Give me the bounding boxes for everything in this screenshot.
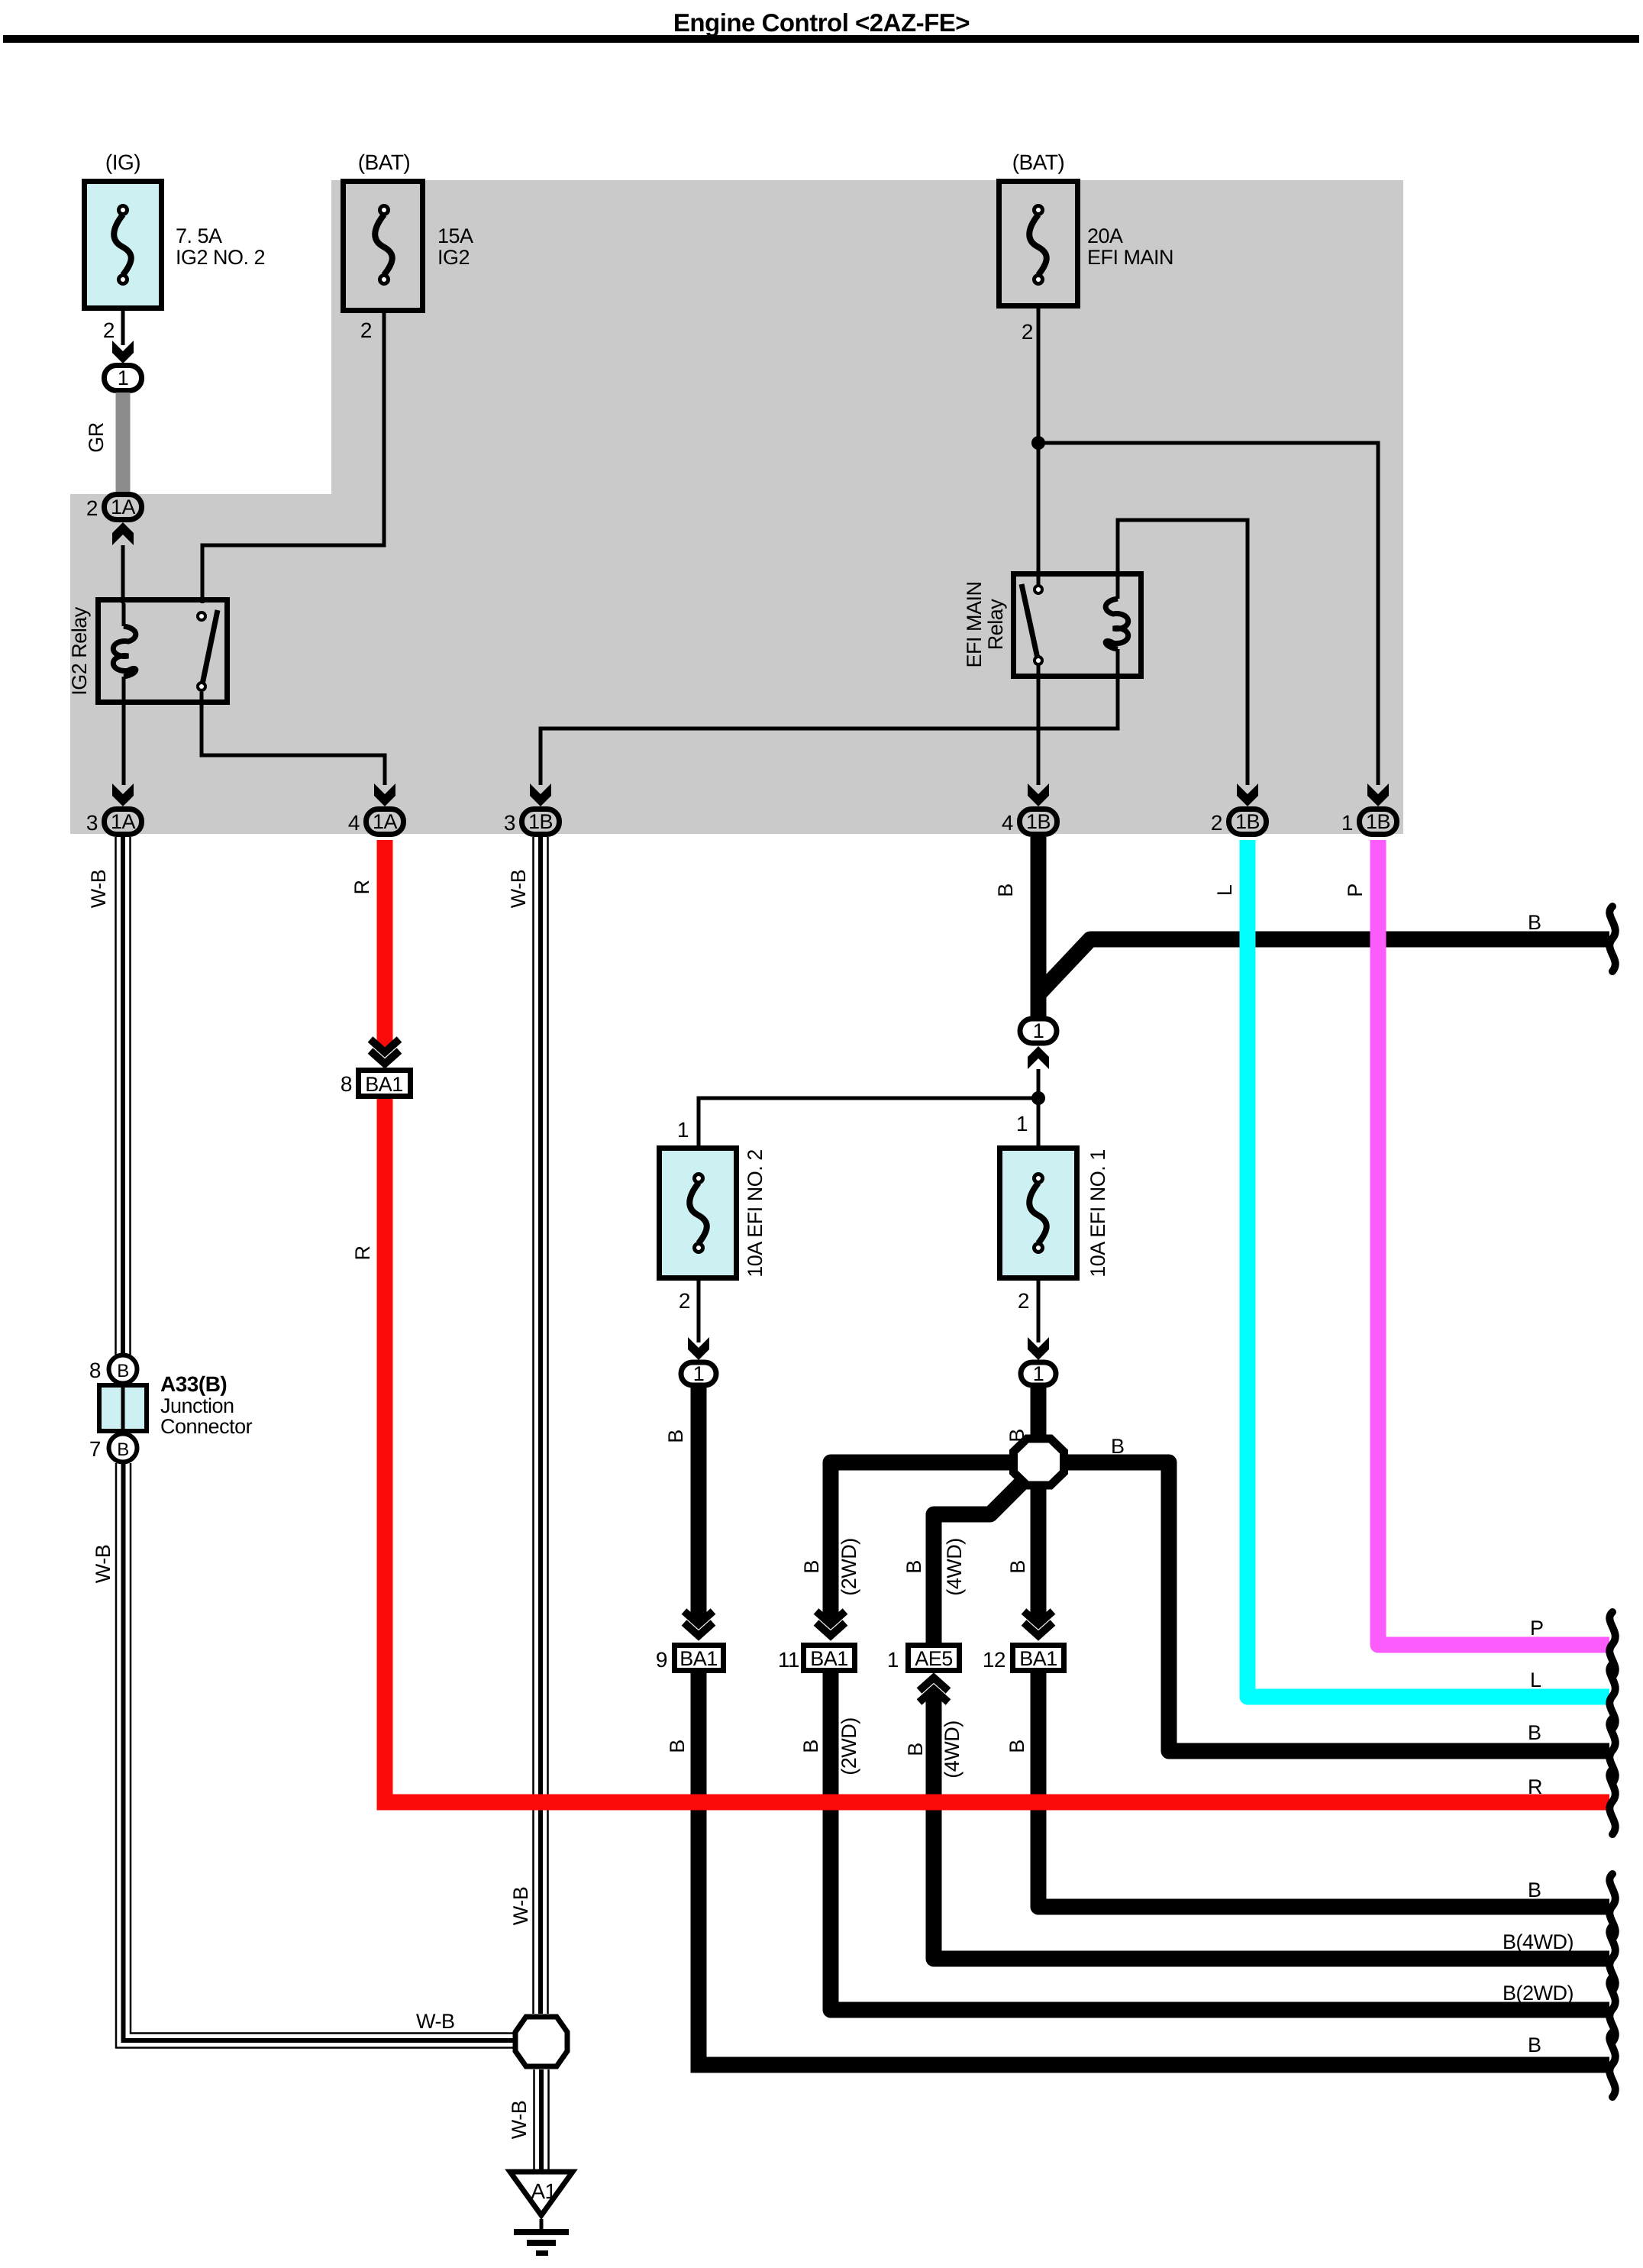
junction connector A33(B) [99,1383,147,1433]
svg-text:W-B: W-B [509,1887,532,1926]
label B (2WD) below [799,1717,860,1775]
squiggle R [1609,1769,1616,1834]
wire 15A fuse to IG2 relay switch [202,313,384,603]
IG2 Relay [98,600,228,786]
svg-text:20A: 20A [1087,225,1123,247]
wire B(2WD) from 11 BA1 [831,1673,1609,2010]
wire W-B from 3(1B) [532,837,534,2014]
svg-text:Junction: Junction [160,1394,234,1417]
svg-text:IG2 NO. 2: IG2 NO. 2 [176,246,265,269]
svg-text:W-B: W-B [416,2010,455,2033]
svg-text:B: B [666,1740,689,1753]
svg-text:GR: GR [85,422,108,453]
svg-text:8: 8 [341,1072,352,1096]
wire fuse NO.2 to connector 1 [697,1281,701,1342]
svg-text:B: B [902,1560,925,1574]
svg-text:A33(B): A33(B) [160,1372,227,1396]
svg-text:R: R [350,880,373,895]
svg-text:B: B [1005,1740,1028,1753]
connector 4(1B) [1002,783,1049,835]
fuse value 7.5A IG2 NO.2 [176,225,265,269]
squiggle B top [1609,906,1616,971]
fuse 20A EFI MAIN [999,182,1078,306]
squiggle B (12 wire) [1609,1874,1616,1939]
wire P from 1(1B) [1378,840,1609,1645]
connector 2(1B) [1211,783,1258,835]
svg-text:2: 2 [1211,811,1222,835]
svg-text:B: B [994,884,1017,897]
svg-text:9: 9 [656,1648,667,1672]
svg-text:Engine Control <2AZ-FE>: Engine Control <2AZ-FE> [673,8,970,37]
svg-text:W-B: W-B [507,870,530,909]
connector 12 BA1 [983,1611,1064,1672]
title underline [3,35,1639,43]
wire fuse NO.1 to connector 1 [1037,1281,1041,1342]
svg-text:BA1: BA1 [679,1647,718,1670]
svg-text:2: 2 [1022,320,1033,344]
svg-text:11: 11 [778,1648,799,1672]
fuse 15A IG2 [344,182,423,311]
svg-text:1: 1 [1033,1019,1044,1042]
svg-text:1: 1 [1033,1362,1044,1385]
wire B(4WD) into 1 AE5 [919,1678,1609,1959]
connector 8 BA1 [341,1039,411,1097]
wire B splice diagonal branch (4WD) [934,1480,1025,1643]
svg-text:B: B [800,1560,823,1574]
fuse 10A EFI NO.2 [660,1149,737,1278]
connector 7(B) [89,1434,137,1462]
connector 3(1A) [86,783,134,835]
connector 1(1B) [1341,783,1389,835]
svg-text:Relay: Relay [984,599,1007,651]
svg-text:4: 4 [1002,811,1013,835]
svg-text:B(4WD): B(4WD) [1503,1930,1574,1953]
svg-text:1B: 1B [528,810,553,833]
label B (4WD wire) [902,1538,966,1595]
svg-text:B: B [1528,2034,1541,2056]
svg-text:10A EFI NO. 2: 10A EFI NO. 2 [744,1149,767,1278]
ground A1 [510,2172,573,2215]
fuse value 15A IG2 [437,225,473,269]
EFI MAIN Relay [1014,571,1141,679]
svg-text:1: 1 [693,1362,705,1385]
squiggle L [1609,1664,1616,1729]
svg-text:2: 2 [86,496,98,520]
svg-text:2: 2 [360,318,372,342]
svg-text:(BAT): (BAT) [358,150,411,174]
svg-text:15A: 15A [437,225,473,247]
splice (W-B octagon) [515,2017,567,2066]
svg-text:L: L [1213,884,1236,896]
svg-text:1: 1 [887,1648,899,1672]
wire B from connector to splice [1031,1388,1047,1439]
squiggle B(4WD) [1609,1926,1616,1991]
svg-text:1: 1 [118,367,129,389]
svg-text:1: 1 [1016,1112,1028,1136]
wire EFI relay coil to 3(1B) [541,679,1118,785]
squiggle P [1609,1612,1616,1677]
wire B splice right branch [1046,1462,1609,1751]
gray harness area (right) [331,180,1403,834]
svg-text:7. 5A: 7. 5A [176,225,222,247]
wire GR [116,393,131,495]
label B (4WD) below [904,1720,964,1778]
fuse value 20A EFI MAIN [1087,225,1173,269]
svg-text:1B: 1B [1235,810,1260,833]
svg-text:B: B [1111,1435,1125,1458]
svg-text:12: 12 [983,1648,1005,1672]
connector 1 AE5 [887,1646,960,1672]
squiggle B(2WD) [1609,1977,1616,2042]
svg-text:AE5: AE5 [915,1647,953,1670]
svg-text:W-B: W-B [87,870,110,909]
connector 4(1A) [348,783,395,835]
ground symbol [514,2219,569,2256]
wire W-B from 3(1A) [115,837,117,1355]
svg-text:B: B [117,1439,129,1460]
svg-text:W-B: W-B [92,1545,115,1584]
svg-text:Connector: Connector [160,1415,253,1438]
connector 1 below NO.1 [1021,1362,1056,1385]
wire B splice left branch (2WD) [831,1462,1031,1643]
svg-text:B: B [904,1743,927,1756]
svg-text:(2WD): (2WD) [838,1717,860,1775]
svg-text:1A: 1A [373,810,398,833]
svg-text:1: 1 [1341,811,1353,835]
connector 1 (EFI circuit) [1020,1019,1057,1043]
wire EFI relay coil to 2(1B) [1118,520,1248,785]
wire B splice bottom branch [1031,1481,1047,1643]
svg-text:3: 3 [86,811,98,835]
svg-text:2: 2 [1018,1289,1029,1313]
wire EFI MAIN fuse to relay [1037,309,1041,585]
svg-text:(IG): (IG) [105,150,140,174]
squiggle B bottom [1609,2032,1616,2097]
wire R from 4(1A) [385,840,1609,1802]
svg-text:1: 1 [677,1118,689,1142]
svg-text:1A: 1A [111,810,136,833]
svg-text:3: 3 [504,811,515,835]
wire B from 4(1B) [1038,837,1609,1016]
svg-text:B: B [664,1430,687,1443]
connector 8(B) [89,1355,137,1384]
connector 11 BA1 [778,1611,855,1672]
gray harness area (left) [70,494,331,834]
wire 1A to IG2 relay coil [112,522,134,603]
label EFI MAIN Relay [963,581,1007,667]
connector 9 BA1 [656,1611,724,1672]
wire L from 2(1B) [1248,840,1609,1697]
svg-text:B(2WD): B(2WD) [1503,1982,1574,2005]
svg-text:B: B [1528,911,1541,934]
svg-text:EFI MAIN: EFI MAIN [1087,246,1173,269]
svg-text:1B: 1B [1026,810,1051,833]
svg-text:L: L [1530,1669,1541,1691]
svg-text:(BAT): (BAT) [1012,150,1065,174]
svg-text:B: B [1528,1721,1541,1744]
wire W-B from 7(B) down and right to splice [116,1463,516,2048]
wire B from connector (col 915) [699,1388,1609,2065]
svg-text:B: B [117,1361,129,1381]
svg-text:A1: A1 [531,2179,556,2203]
svg-text:BA1: BA1 [810,1647,848,1670]
junction node [1031,436,1045,450]
svg-text:BA1: BA1 [365,1073,403,1096]
svg-text:W-B: W-B [508,2101,531,2140]
svg-text:B: B [1528,1879,1541,1901]
svg-text:8: 8 [89,1359,101,1382]
splice (B octagon) [1014,1439,1064,1485]
svg-text:(2WD): (2WD) [838,1538,860,1595]
svg-text:7: 7 [89,1437,101,1461]
fuse 7.5A IG2 NO.2 [85,182,162,309]
connector 1 (IG circuit) [105,366,142,391]
svg-text:B: B [1006,1560,1029,1574]
svg-text:P: P [1344,884,1367,897]
svg-text:(4WD): (4WD) [941,1720,964,1778]
svg-text:1B: 1B [1366,810,1390,833]
wire IG2 relay switch to 4(1A) [202,692,385,785]
label B (2WD wire) [800,1538,860,1595]
svg-text:R: R [1528,1775,1542,1798]
svg-text:IG2: IG2 [437,246,470,269]
svg-text:2: 2 [679,1289,690,1313]
svg-text:4: 4 [348,811,360,835]
svg-text:B: B [799,1740,822,1753]
wire 1 to fuses [699,1046,1049,1152]
wire B from 12 BA1 [1038,1673,1609,1907]
svg-text:1A: 1A [111,496,136,519]
label A33(B) Junction Connector [160,1372,253,1438]
squiggle B (splice branch) [1609,1718,1616,1783]
connector 1 below NO.2 [681,1362,716,1385]
svg-text:(4WD): (4WD) [943,1538,966,1595]
svg-text:2: 2 [103,318,115,342]
svg-text:P: P [1530,1617,1544,1640]
fuse 10A EFI NO.1 [1000,1149,1077,1278]
svg-text:IG2 Relay: IG2 Relay [68,606,91,696]
wire IG fuse to connector 1 [121,311,125,345]
svg-text:EFI MAIN: EFI MAIN [963,581,986,667]
connector 3(1B) [504,783,551,835]
wire EFI relay switch to 4(1B) [1037,665,1041,785]
wire W-B below splice [533,2069,535,2169]
svg-text:10A EFI NO. 1: 10A EFI NO. 1 [1086,1149,1109,1278]
svg-text:BA1: BA1 [1019,1647,1057,1670]
wire branch to connector 1B pin 1 [1038,443,1378,785]
svg-text:R: R [351,1246,374,1261]
